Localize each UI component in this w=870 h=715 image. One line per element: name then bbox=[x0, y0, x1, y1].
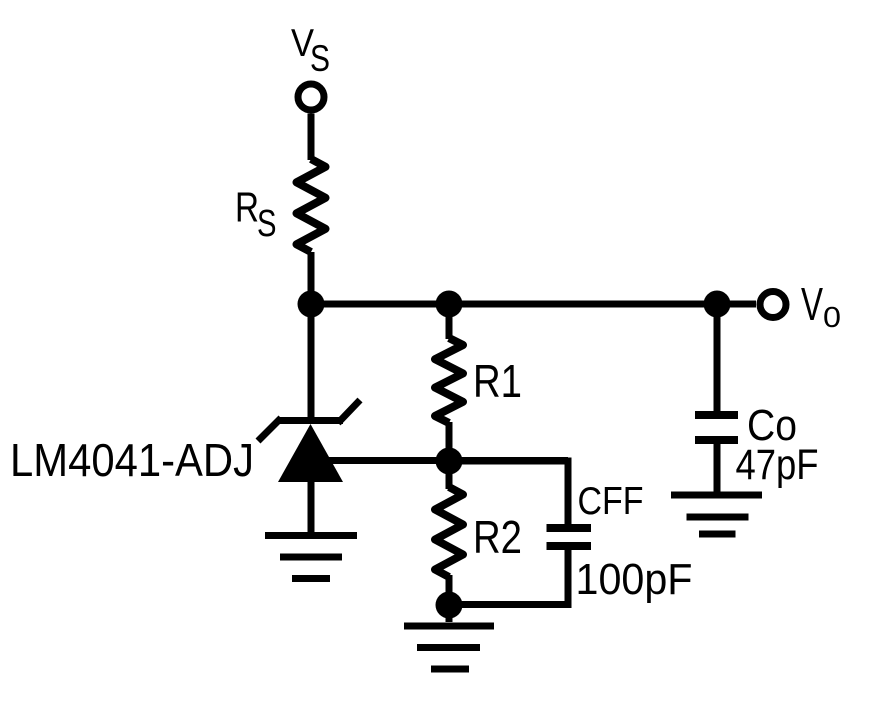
capacitor CFF bbox=[547, 528, 592, 546]
terminal VS bbox=[298, 84, 324, 110]
svg-text:47pF: 47pF bbox=[736, 441, 819, 489]
svg-text:R: R bbox=[235, 184, 259, 231]
wire CFF bottom bbox=[449, 546, 568, 605]
wire bbox=[446, 461, 453, 489]
node junction middle bbox=[436, 291, 463, 318]
zener D1 LM4041-ADJ cathode bar bbox=[258, 400, 360, 441]
label VS bbox=[291, 22, 330, 79]
label RS bbox=[235, 184, 277, 246]
wire bbox=[446, 422, 453, 461]
wire bbox=[308, 114, 315, 161]
ground zener bbox=[265, 536, 357, 579]
node junction right bbox=[704, 291, 731, 318]
svg-text:R1: R1 bbox=[473, 355, 522, 407]
resistor R1 bbox=[435, 338, 463, 423]
wire feedback bbox=[318, 457, 568, 464]
resistor R2 bbox=[435, 487, 463, 577]
zener D1 triangle bbox=[278, 424, 343, 482]
svg-text:V: V bbox=[801, 278, 823, 330]
svg-text:S: S bbox=[310, 38, 330, 79]
wire CFF top bbox=[449, 461, 568, 528]
wire main horizontal bbox=[311, 301, 756, 308]
svg-text:R2: R2 bbox=[473, 511, 522, 563]
wire bbox=[446, 304, 453, 339]
ground Co bbox=[671, 495, 762, 534]
wire bbox=[308, 482, 315, 536]
node junction left bbox=[298, 291, 325, 318]
ground R2 bbox=[404, 626, 494, 669]
label V0 bbox=[801, 278, 841, 334]
svg-text:0: 0 bbox=[823, 302, 841, 334]
wire bbox=[446, 605, 453, 622]
node junction bottom bbox=[436, 592, 463, 619]
svg-text:100pF: 100pF bbox=[576, 556, 693, 604]
resistor RS bbox=[297, 159, 326, 252]
svg-text:S: S bbox=[257, 203, 277, 245]
node junction FB bbox=[436, 448, 463, 475]
wire bbox=[714, 440, 721, 498]
wire bbox=[308, 252, 315, 424]
svg-text:LM4041-ADJ: LM4041-ADJ bbox=[10, 434, 254, 486]
wire bbox=[714, 304, 721, 415]
capacitor Co bbox=[695, 415, 738, 440]
svg-text:CFF: CFF bbox=[578, 480, 644, 523]
wire bbox=[446, 575, 453, 605]
terminal V0 bbox=[760, 292, 786, 318]
